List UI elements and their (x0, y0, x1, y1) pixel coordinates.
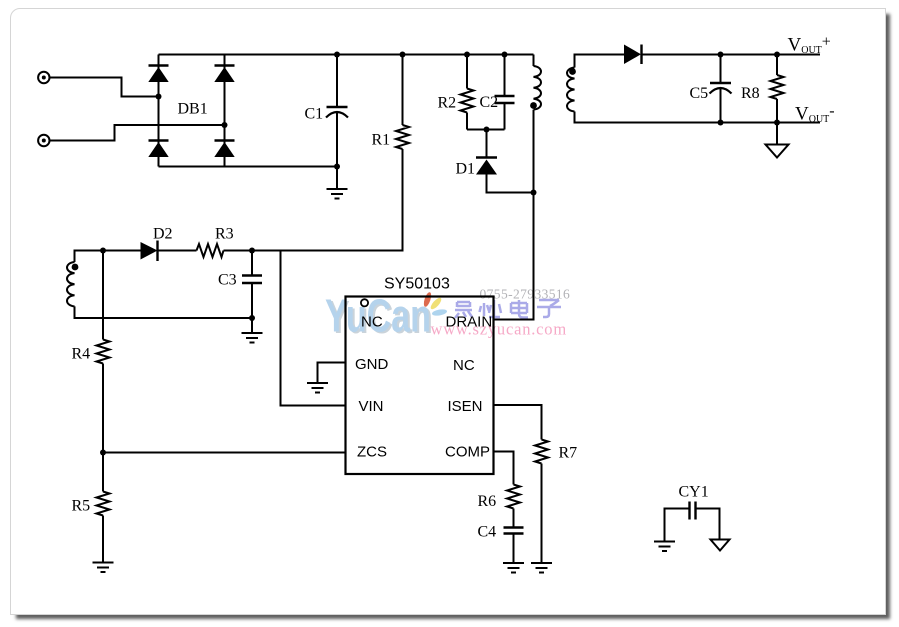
svg-text:R6: R6 (478, 493, 497, 510)
wire bridge left leg (158, 55, 160, 167)
wire bottom rail (bridge to C1 ground) (159, 166, 338, 168)
DB1 diode top-left (148, 66, 168, 83)
wire input top to bridge (50, 78, 159, 97)
wire output positive rail (642, 54, 821, 56)
node D1 / drain (531, 190, 537, 196)
ground (C3) (242, 333, 263, 343)
watermark logo YuCan shadow (327, 291, 433, 343)
svg-text:R1: R1 (372, 132, 391, 149)
capacitor C3 (242, 276, 262, 284)
wire ZCS (103, 452, 346, 454)
transformer secondary winding (567, 68, 575, 112)
wire primary bottom to DRAIN (494, 110, 534, 320)
svg-text:ZCS: ZCS (357, 444, 387, 461)
ground (R7) (531, 563, 552, 573)
node C3 top (249, 248, 255, 254)
input connector J2 (neutral) (38, 135, 49, 146)
svg-text:C3: C3 (218, 272, 237, 289)
svg-text:C1: C1 (305, 106, 324, 123)
svg-text:C2: C2 (480, 94, 499, 111)
secondary polarity dot (569, 68, 576, 75)
wire to output earth (776, 123, 778, 145)
wire R4 top (102, 251, 104, 340)
wire ISEN to R7 (494, 405, 542, 440)
node C1 top (334, 52, 340, 58)
wire R2 bottom (466, 113, 468, 130)
wire top rail (159, 54, 534, 56)
node input top / bridge left (156, 94, 162, 100)
watermark chinese char 3 (511, 300, 528, 318)
node R8 bottom (774, 120, 780, 126)
resistor R6 (507, 485, 520, 509)
DB1 diode bottom-left (148, 141, 168, 158)
node C1 / bottom rail (334, 164, 340, 170)
primary polarity dot (530, 102, 537, 109)
watermark chinese char 4 (537, 300, 561, 317)
wire CY1 left (665, 509, 690, 542)
capacitor C4 (504, 528, 524, 534)
watermark logo petal yellow (429, 296, 443, 311)
ground (R5) (93, 563, 114, 573)
wire C3 bottom (251, 283, 253, 333)
transformer primary winding (534, 66, 542, 110)
wire secondary top (575, 55, 625, 68)
diode D1 (476, 158, 497, 175)
wire C5 bottom (720, 89, 722, 123)
wire R2 top (466, 55, 468, 89)
wire R1 bottom to aux node (252, 149, 403, 251)
resistor R4 (97, 340, 110, 364)
wire C1 bottom (336, 113, 338, 189)
wire C2 top (504, 55, 506, 97)
svg-text:SY50103: SY50103 (384, 276, 450, 293)
svg-text:VIN: VIN (359, 398, 384, 415)
wire C2 bottom (504, 103, 506, 130)
svg-text:GND: GND (355, 356, 389, 373)
svg-text:D2: D2 (153, 226, 173, 243)
svg-text:CY1: CY1 (679, 484, 709, 501)
wire R3 to C3 node (224, 250, 253, 252)
wire R6 to C4 (513, 509, 515, 528)
svg-text:VOUT+: VOUT+ (788, 34, 831, 57)
resistor R7 (535, 440, 548, 464)
svg-text:DRAIN: DRAIN (446, 313, 493, 330)
wire R5 bottom (102, 516, 104, 563)
svg-text:C5: C5 (690, 85, 709, 102)
op-amp U1 SY50103 body (346, 297, 494, 475)
resistor R2 (461, 89, 474, 113)
node snubber / D1 (484, 127, 490, 133)
svg-text:R3: R3 (215, 226, 234, 243)
input connector J1 (line) (38, 72, 49, 83)
wire C5 top (720, 55, 722, 84)
DB1 diode bottom-right (214, 141, 234, 158)
wire GND pin (318, 363, 346, 384)
node aux / R4 (100, 248, 106, 254)
transformer aux winding (67, 262, 75, 306)
svg-text:R5: R5 (72, 498, 91, 515)
DB1 diode top-right (214, 66, 234, 83)
capacitor C1 (326, 107, 348, 118)
pin 1 marker (361, 299, 368, 306)
node R8 top (774, 52, 780, 58)
wire C4 bottom (513, 534, 515, 563)
svg-text:R4: R4 (72, 346, 91, 363)
watermark chinese char 2 (480, 300, 502, 317)
svg-text:DB1: DB1 (178, 101, 208, 118)
node R1 top (400, 52, 406, 58)
svg-text:D1: D1 (456, 161, 476, 178)
watermark chinese char 1 (455, 302, 472, 318)
wire aux top (75, 251, 141, 263)
wire rail to primary (533, 55, 535, 67)
node C5 bottom (718, 120, 724, 126)
resistor R3 (197, 244, 224, 257)
earth ground (CY1 right) (711, 540, 730, 551)
node ZCS (100, 450, 106, 456)
node C3 bottom (249, 315, 255, 321)
svg-text:NC: NC (453, 357, 475, 374)
wire D1 top (486, 130, 488, 158)
wire COMP to R6 (494, 452, 514, 485)
wire bridge right leg (224, 55, 226, 167)
svg-text:NC: NC (361, 313, 383, 330)
wire CY1 right (696, 509, 720, 540)
wire C3 top (251, 251, 253, 276)
wire D2 to R3 (158, 250, 197, 252)
earth ground (output) (766, 145, 789, 158)
wire VIN (281, 251, 346, 406)
wire R8 bottom (776, 99, 778, 123)
node C5 top (718, 52, 724, 58)
wire secondary bottom / output negative rail (575, 112, 821, 123)
resistor R5 (97, 492, 110, 516)
svg-text:ISEN: ISEN (448, 398, 483, 415)
node R2 top (464, 52, 470, 58)
node C2 top (502, 52, 508, 58)
wire input bottom to bridge (50, 125, 225, 141)
svg-text:R8: R8 (741, 85, 760, 102)
diode D2 (141, 241, 158, 262)
svg-text:COMP: COMP (445, 444, 490, 461)
capacitor C2 (495, 96, 515, 103)
watermark logo dash (432, 308, 448, 316)
wire D1 bottom to drain line (487, 175, 534, 193)
ground (C1) (327, 189, 348, 199)
capacitor C5 (710, 83, 732, 94)
wire R4 to ZCS node (102, 364, 104, 492)
wire R8 top (776, 55, 778, 76)
resistor R8 (771, 75, 784, 99)
ground (GND pin) (307, 383, 328, 393)
svg-text:VOUT-: VOUT- (795, 103, 835, 126)
wire C1 top (336, 55, 338, 108)
diode D3 output rectifier (624, 45, 642, 65)
aux polarity dot (72, 264, 79, 271)
svg-text:R7: R7 (559, 445, 578, 462)
wire R1 top (402, 55, 404, 126)
wire aux bottom (75, 306, 253, 318)
watermark logo petal red (422, 291, 432, 307)
wire snubber bottom (467, 129, 505, 131)
ground (C4) (503, 563, 524, 573)
resistor R1 (396, 125, 409, 149)
watermark logo YuCan (325, 289, 431, 341)
node input bottom / bridge right (222, 122, 228, 128)
svg-text:R2: R2 (438, 95, 457, 112)
svg-text:C4: C4 (478, 524, 497, 541)
capacitor CY1 (690, 502, 696, 520)
ground (CY1 left) (654, 542, 675, 552)
wire R7 bottom (541, 464, 543, 563)
